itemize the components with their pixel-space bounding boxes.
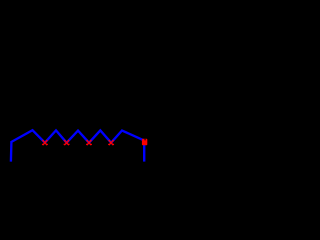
oxygen O1 (red x mark) (42, 140, 48, 145)
oxygen O4 (red x mark) (108, 140, 114, 145)
wire: terminal bond O5-C8 (right vertical) (143, 145, 145, 162)
oxygen O2 (red x mark) (64, 140, 70, 145)
oxygen O3 (red x mark) (86, 140, 92, 145)
oxygen O5 (red blob atom, right end) (142, 139, 147, 146)
wire: carbon chain backbone bonds C1-C2-C3-O1-C4-O2-C5-O3-C6-O4-C7-O5 (11, 130, 144, 161)
